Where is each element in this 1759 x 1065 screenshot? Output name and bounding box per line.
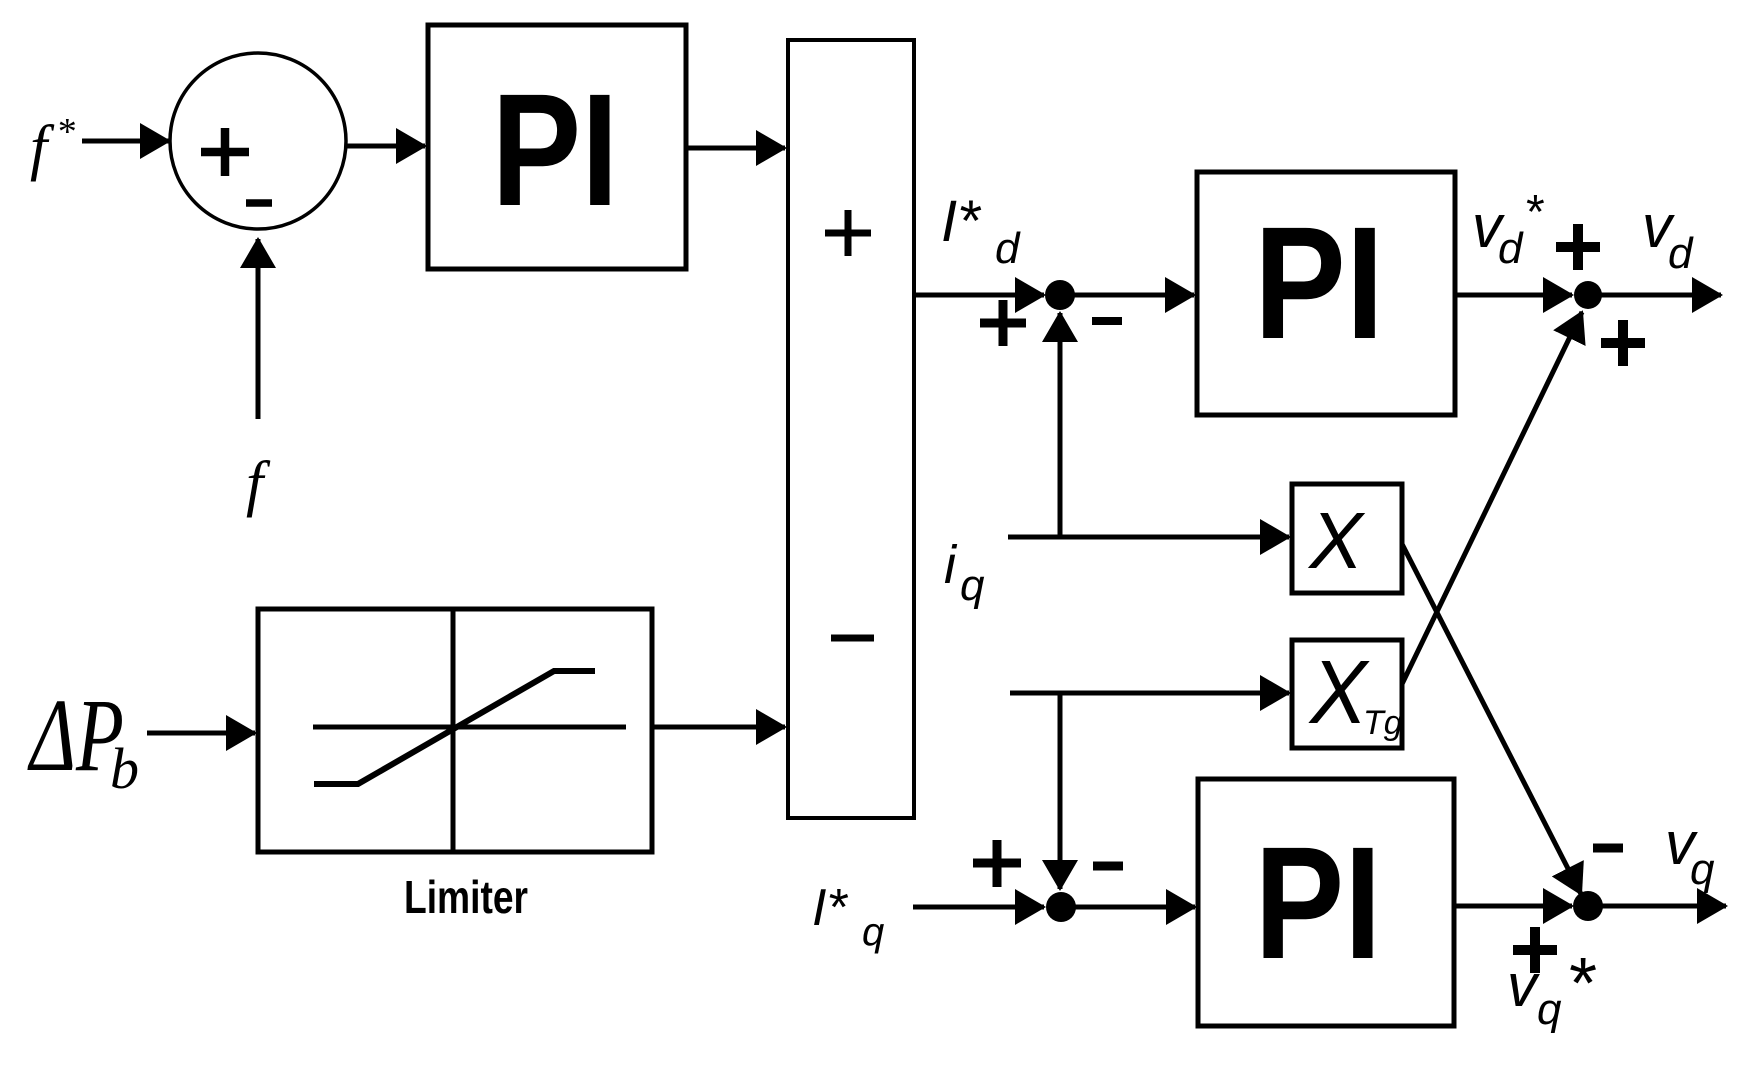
svg-text:d: d	[1498, 224, 1524, 273]
node V2	[1573, 891, 1603, 921]
wire Iq* input to D2l	[913, 905, 1044, 910]
svg-text:*: *	[1524, 186, 1544, 239]
svg-text:I*: I*	[812, 879, 848, 937]
wire iq feedback up into D1	[1058, 313, 1063, 537]
wire S1 to PI1	[347, 144, 425, 149]
PI controller U1	[428, 25, 686, 269]
minus above node V2	[1593, 844, 1623, 853]
node V1	[1574, 281, 1602, 309]
plus below node V2	[1513, 927, 1557, 973]
PI controller U3	[1198, 779, 1454, 1026]
wire dPb input	[147, 731, 255, 736]
multiplier XTg	[1292, 640, 1402, 748]
minus sign in S1	[246, 199, 272, 207]
svg-text:d: d	[1668, 229, 1694, 278]
svg-text:q: q	[1690, 845, 1715, 894]
svg-text:X: X	[1308, 643, 1370, 743]
svg-text:Tg: Tg	[1363, 704, 1403, 742]
plus at node D2l	[973, 840, 1021, 887]
svg-text:q: q	[862, 910, 884, 954]
wire Id* from summing block to node D1	[914, 293, 1044, 298]
wire D2l to PI3	[1061, 905, 1195, 910]
multiplier X	[1292, 484, 1402, 593]
svg-text:*: *	[1566, 944, 1596, 1024]
svg-text:PI: PI	[1255, 813, 1382, 992]
plus below right of node V1	[1601, 320, 1645, 366]
wire PI3 to node V2	[1454, 904, 1569, 909]
svg-text:q: q	[1537, 985, 1562, 1034]
wire limiter to summing block	[652, 725, 785, 730]
wire vd output	[1588, 293, 1721, 298]
svg-text:i: i	[944, 535, 958, 595]
svg-text:v: v	[1507, 952, 1540, 1019]
node D2l	[1046, 892, 1076, 922]
svg-text:b: b	[110, 736, 139, 801]
summing junction S1	[170, 53, 346, 229]
svg-text:q: q	[960, 561, 985, 610]
limiter horizontal axis	[313, 725, 626, 730]
wire iq to X	[1008, 535, 1289, 540]
wire f* input	[82, 139, 169, 144]
svg-text:PI: PI	[1254, 193, 1384, 372]
wire PI1 to summing block	[686, 146, 785, 151]
svg-text:d: d	[995, 224, 1021, 273]
limiter saturation curve	[314, 671, 595, 784]
wire vq output	[1588, 904, 1726, 909]
svg-text:PI: PI	[492, 60, 619, 239]
node D1	[1045, 280, 1075, 310]
minus in summing block	[831, 635, 874, 642]
plus in summing block	[825, 210, 871, 256]
limiter vertical axis	[451, 609, 456, 852]
wire D1 to PI2	[1060, 293, 1194, 298]
minus at node D1	[1092, 317, 1122, 325]
svg-text:Limiter: Limiter	[404, 871, 528, 923]
summing block	[788, 40, 914, 818]
svg-text:I*: I*	[941, 189, 982, 254]
cross-coupling diagonal A (X to D2r)	[1402, 544, 1581, 894]
limiter block	[258, 609, 652, 852]
plus sign in S1	[201, 128, 249, 176]
plus above node V1	[1556, 224, 1600, 270]
PI controller U2	[1197, 172, 1455, 415]
minus at node D2l	[1093, 862, 1123, 871]
plus at node D1	[980, 300, 1026, 346]
wire id to XTg	[1010, 691, 1289, 696]
svg-text:*: *	[56, 111, 75, 153]
wire PI2 to node V1	[1455, 293, 1569, 298]
cross-coupling diagonal B (XTg to V1)	[1402, 312, 1582, 684]
wire id feedback down into D2l	[1058, 693, 1063, 889]
svg-text:X: X	[1307, 496, 1365, 585]
wire f feedback	[256, 239, 261, 419]
